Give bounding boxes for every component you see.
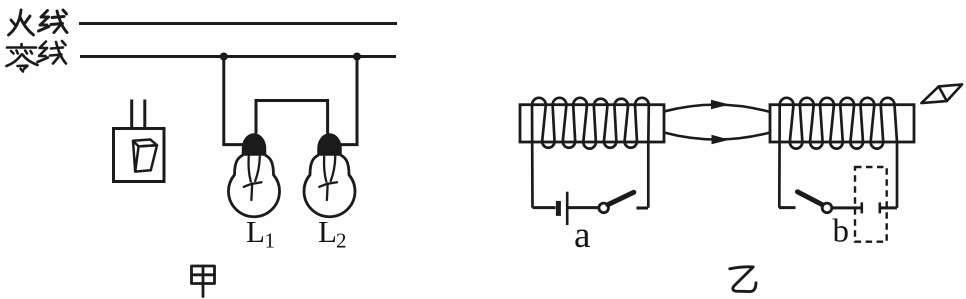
lamp L2 base cap [318,134,341,155]
wire: bottom wire from T1 left lead to battery [533,206,556,209]
wire: battery to switch a pivot [568,206,598,209]
wire: switch b pivot to left terminal [832,206,862,209]
wire: bridge between lamp tops [256,101,328,134]
wire: neutral drop to lamp L2 right side [340,57,357,145]
battery B1 positive plate (long thin) [566,192,569,225]
lamp L1 filament [244,157,262,201]
terminal tick right (inside dashed box) [878,202,881,213]
coil T1 core (left solenoid rectangle) [520,105,664,142]
switch S1 wall-switch box [114,129,165,182]
lamp L1 glass bulb [229,155,280,217]
switch a fixed contact + wire to T1 right lead [637,207,649,210]
coupling flux bottom arc [664,133,770,140]
node: junction dot left (L1 branch on neutral) [220,53,228,61]
wire: T2 left lead corner + fixed contact of switch b [779,206,796,209]
battery B1 negative plate (short thick) [556,201,561,216]
switch a pivot circle [599,203,609,213]
coil T2 winding + leads [779,98,897,208]
switch S1 rocker (3D knob) [133,140,157,172]
lamp L2 filament [319,157,337,201]
wire: live wire (火线) [79,22,397,25]
label 甲 (figure A) hand-drawn glyph [192,266,215,297]
wire: right terminal to T2 right lead [880,206,897,209]
svg-text:b: b [833,214,850,250]
arrowhead on top arc [711,100,730,110]
lamp L1 base cap [243,134,266,155]
coil T1 winding + leads [532,98,649,208]
label 火线 (live wire) hand-drawn glyphs [9,10,68,35]
svg-text:L: L [246,214,265,249]
coupling flux top arc [664,105,770,112]
wire: neutral drop to lamp L1 left side [224,57,244,145]
lamp L2 glass bulb [304,155,355,217]
switch a blade (open) [608,192,634,204]
wire: neutral wire (零线) [80,55,396,58]
svg-text:L: L [318,214,337,249]
svg-text:1: 1 [265,229,276,253]
label 零线 (neutral wire) hand-drawn glyphs [7,41,67,72]
label 乙 (figure B) hand-drawn glyph [730,267,756,292]
svg-text:a: a [574,215,590,256]
switch b pivot circle [822,203,832,213]
arrowhead on bottom arc [712,135,730,145]
terminal tick left (inside dashed box) [860,202,863,213]
dashed box (component placeholder) [855,167,887,242]
switch b blade (open) [798,192,823,205]
coil T2 core (right solenoid rectangle) [770,105,914,142]
svg-text:2: 2 [336,229,347,253]
node: junction dot right (L2 branch on neutral) [353,53,361,61]
parallelogram marker at top-right [921,84,962,103]
switch S1 lead stubs [130,100,133,129]
